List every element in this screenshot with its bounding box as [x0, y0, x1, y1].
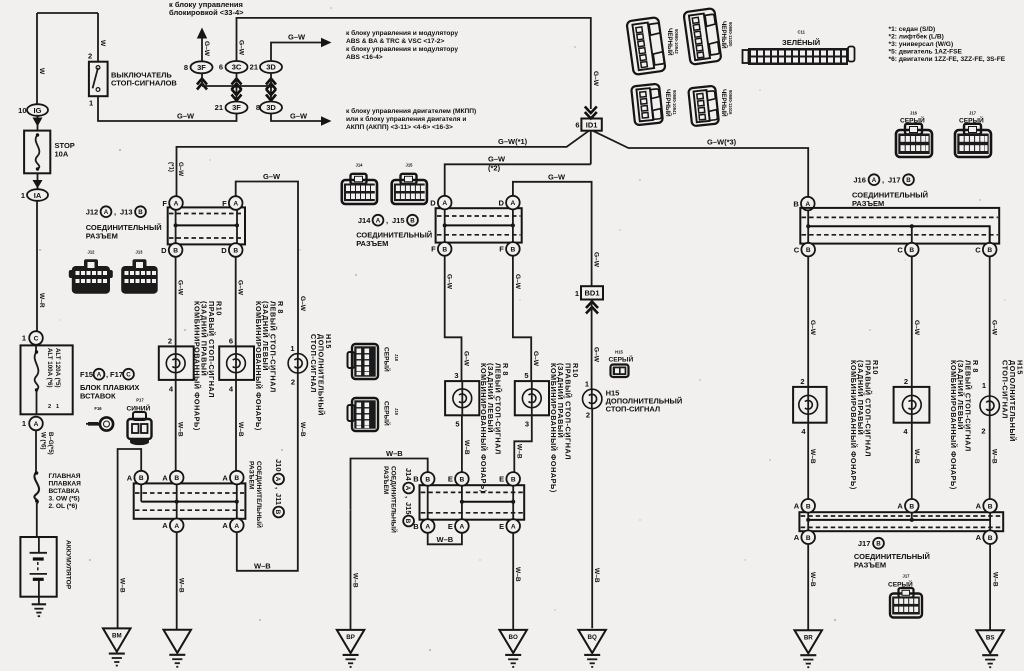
svg-text:2: 2: [904, 377, 908, 386]
lamp R8 left box: [219, 346, 254, 380]
svg-text:B: B: [909, 247, 914, 254]
fuse element in block: [35, 352, 39, 390]
ground hatch BP: [343, 654, 359, 656]
wire 3F to bus: [201, 73, 203, 86]
switch blade: [93, 68, 98, 89]
svg-text:3C: 3C: [232, 63, 242, 72]
wire in block to A: [36, 390, 38, 414]
svg-text:J16: J16: [910, 111, 918, 116]
svg-text:C: C: [897, 245, 903, 254]
svg-text:5: 5: [524, 371, 528, 380]
svg-text:W–B: W–B: [809, 572, 816, 587]
svg-text:G–W: G–W: [514, 274, 521, 290]
label ALT 120A / ALT 100A rotated: [46, 348, 61, 388]
lamp R10 right box: [793, 387, 827, 423]
terminal oval C: [29, 331, 43, 345]
svg-text:,: ,: [404, 496, 413, 498]
svg-text:J13: J13: [136, 250, 144, 255]
svg-text:*1: седан (S/D): *1: седан (S/D): [889, 26, 936, 33]
fuse element squiggle: [36, 135, 40, 169]
bus line J16: [808, 226, 990, 243]
svg-text:,: ,: [882, 176, 884, 185]
svg-text:F: F: [222, 199, 227, 208]
svg-text:СТОП-СИГНАЛ: СТОП-СИГНАЛ: [309, 334, 318, 393]
svg-text:F: F: [431, 245, 436, 254]
svg-text:B: B: [410, 218, 415, 225]
svg-text:F: F: [162, 199, 167, 208]
ground triangle BS: [976, 630, 1004, 653]
label G-W above BD1 rotated: [593, 252, 600, 268]
terminal F B 1 mid: [438, 242, 452, 256]
wire G-W(*2) branch: [445, 164, 591, 196]
svg-text:W–B: W–B: [178, 578, 185, 593]
svg-text:G–W: G–W: [263, 172, 281, 181]
svg-text:СОЕДИНИТЕЛЬНЫЙ: СОЕДИНИТЕЛЬНЫЙ: [390, 466, 399, 533]
svg-text:A: A: [794, 502, 800, 511]
wire W feed top-left horizontal: [37, 12, 98, 14]
rotated label J10 A J11 B: [273, 459, 284, 517]
battery box: [20, 537, 56, 597]
svg-text:G–W: G–W: [548, 172, 566, 181]
rotated label soedinitelny razem mid bottom: [382, 466, 399, 533]
svg-text:A: A: [511, 200, 516, 207]
svg-text:E: E: [448, 475, 453, 484]
svg-text:J18: J18: [394, 354, 399, 362]
svg-text:8: 8: [256, 103, 260, 112]
icon P17 blue connector: [127, 398, 152, 446]
svg-text:G–W: G–W: [593, 252, 600, 268]
svg-text:A: A: [34, 421, 39, 428]
wire lamp R8 left down: [235, 380, 237, 471]
svg-text:*2: лифтбек (L/B): *2: лифтбек (L/B): [889, 33, 944, 41]
svg-text:к блоку управления и модулятор: к блоку управления и модулятору: [346, 29, 458, 37]
connector icon black top1: [626, 17, 665, 75]
svg-text:J17: J17: [903, 574, 911, 579]
ground hatch BS: [982, 654, 998, 656]
svg-text:BM: BM: [112, 633, 122, 640]
svg-text:СТОП-СИГНАЛ: СТОП-СИГНАЛ: [1001, 360, 1010, 419]
svg-text:A: A: [234, 523, 239, 530]
svg-text:B: B: [793, 199, 799, 208]
svg-text:C: C: [794, 245, 800, 254]
chevron down into ID1: [585, 107, 597, 119]
terminal D B 2: [229, 243, 243, 257]
svg-text:B: B: [511, 247, 516, 254]
svg-text:J11: J11: [274, 493, 283, 505]
svg-text:СТОП-СИГНАЛ: СТОП-СИГНАЛ: [606, 405, 661, 414]
connector icon J14: [342, 163, 377, 205]
svg-text:КОМБИНИРОВАННЫЙ ФОНАРЬ): КОМБИНИРОВАННЫЙ ФОНАРЬ): [849, 360, 858, 490]
junction dot 3C bus: [235, 84, 239, 88]
svg-text:G–W: G–W: [532, 351, 539, 367]
svg-text:блокировкой <33-4>: блокировкой <33-4>: [169, 8, 244, 17]
terminal oval A below fuse block: [29, 417, 43, 431]
dashed lines J17 bottom: [801, 515, 1002, 517]
svg-text:СЕРЫЙ: СЕРЫЙ: [383, 347, 392, 372]
svg-text:J15: J15: [406, 163, 414, 168]
wire lamp R10 mid down jog: [514, 415, 532, 472]
internal verticals J12: [176, 210, 237, 243]
svg-text:90980-10941: 90980-10941: [672, 90, 677, 115]
svg-text:10A: 10A: [55, 150, 69, 159]
battery cell 2 long plate: [30, 573, 47, 575]
svg-text:B: B: [425, 477, 430, 484]
bus wire connecting 3F 3C 3D: [202, 85, 271, 87]
svg-text:РАЗЪЕМ: РАЗЪЕМ: [852, 199, 884, 208]
connector icon black row2 a: [631, 84, 663, 126]
svg-text:J19: J19: [394, 408, 399, 416]
svg-text:E: E: [499, 475, 504, 484]
wire BD1 to H15 mid: [591, 300, 593, 390]
svg-text:A: A: [794, 533, 800, 542]
svg-text:G–W: G–W: [463, 351, 470, 367]
svg-text:J17: J17: [858, 539, 871, 548]
rotated label R8 right group: [949, 360, 980, 490]
ground triangle left2: [164, 630, 192, 653]
svg-text:2: 2: [800, 377, 804, 386]
wire EA2 mid to BO ground: [512, 533, 514, 630]
svg-text:2: 2: [981, 427, 985, 436]
terminal A A bottom1: [170, 519, 184, 533]
svg-text:РАЗЪЕМ: РАЗЪЕМ: [382, 466, 389, 495]
svg-text:A: A: [222, 473, 228, 482]
terminal B B mid: [421, 472, 435, 486]
svg-text:2. OL (*6): 2. OL (*6): [49, 503, 78, 510]
svg-text:B: B: [806, 247, 811, 254]
svg-text:90980-11016: 90980-11016: [728, 90, 733, 115]
junction block J16 J17 rect: [800, 208, 999, 244]
svg-text:3D: 3D: [266, 63, 276, 72]
svg-text:W–B: W–B: [254, 562, 271, 571]
svg-text:,: ,: [274, 487, 283, 489]
arrow down into fuse: [33, 118, 43, 127]
icon gray connector J17 bottom: [888, 574, 922, 618]
svg-text:B: B: [234, 475, 239, 482]
terminal D A 2 mid: [506, 196, 520, 210]
ground triangle BM: [103, 628, 131, 651]
svg-text:СОЕДИНИТЕЛЬНЫЙ: СОЕДИНИТЕЛЬНЫЙ: [255, 461, 264, 528]
svg-text:W–B: W–B: [352, 573, 359, 588]
terminal oval IG: [27, 104, 48, 116]
label CHERNY top2: [720, 21, 728, 49]
wire DB2 down to lamp R8 left: [235, 257, 237, 347]
label W-R: [38, 293, 45, 308]
svg-text:G–W: G–W: [177, 112, 195, 121]
svg-text:ЗЕЛЁНЫЙ: ЗЕЛЁНЫЙ: [782, 38, 820, 47]
svg-text:W: W: [99, 40, 106, 47]
rotated label R8 mid group: [479, 363, 510, 493]
connector icon J13: [121, 250, 158, 294]
arrow down into IA: [33, 180, 43, 189]
lamp H15 mid circle: [591, 389, 593, 408]
wire G-W branch to DA2 and BD1: [513, 182, 592, 286]
svg-text:РАЗЪЕМ: РАЗЪЕМ: [86, 232, 118, 241]
dashed lines mid bottom: [421, 491, 523, 493]
internal verticals J16: [808, 211, 912, 243]
svg-text:6: 6: [575, 121, 579, 130]
svg-text:1: 1: [21, 191, 25, 200]
svg-text:J10: J10: [274, 459, 283, 472]
svg-text:G–W: G–W: [592, 71, 599, 87]
terminal F A 1: [169, 196, 183, 210]
svg-text:ЧЕРНЫЙ: ЧЕРНЫЙ: [664, 89, 672, 117]
wire CB1 down to lamp R10 right: [807, 257, 809, 387]
svg-text:ВСТАВКА: ВСТАВКА: [49, 488, 80, 495]
junction block J17 bottom rect: [799, 512, 1003, 531]
svg-text:*6: двигатели 1ZZ-FE, 3ZZ-FE,: *6: двигатели 1ZZ-FE, 3ZZ-FE, 3S-FE: [889, 56, 1006, 63]
wire W-R down to fuse block: [36, 201, 38, 332]
svg-text:B: B: [138, 209, 143, 216]
switch contact bottom: [96, 88, 100, 92]
wire C into block: [35, 345, 37, 352]
svg-text:ALT 120A (*5): ALT 120A (*5): [54, 348, 61, 388]
dashed lines J10: [135, 492, 244, 494]
wire DB1 down to lamp R10 left: [175, 257, 177, 347]
label CHERNY row2 a: [664, 89, 672, 117]
svg-text:3D: 3D: [266, 103, 276, 112]
svg-text:2: 2: [48, 404, 51, 410]
svg-text:РАЗЪЕМ: РАЗЪЕМ: [247, 461, 254, 490]
svg-text:10: 10: [18, 106, 26, 115]
bus line J12: [176, 224, 237, 226]
bus line J14: [445, 224, 513, 226]
svg-text:B: B: [460, 477, 465, 484]
svg-text:к блоку управления двигателем: к блоку управления двигателем (МКПП): [346, 107, 476, 115]
svg-text:J12: J12: [86, 208, 99, 217]
svg-text:A: A: [872, 177, 877, 184]
svg-text:A: A: [97, 372, 102, 379]
svg-text:СТОП-СИГНАЛОВ: СТОП-СИГНАЛОВ: [111, 79, 177, 88]
svg-text:W (*6): W (*6): [40, 432, 47, 450]
chevron up 3C: [232, 79, 242, 90]
chevron up 3F: [197, 79, 207, 90]
svg-text:2: 2: [168, 337, 172, 346]
svg-text:1: 1: [56, 404, 59, 410]
terminal oval 3C: [226, 61, 248, 73]
internal verticals J10: [141, 485, 237, 519]
svg-text:J16: J16: [853, 176, 866, 185]
label G-W 3C column: [238, 40, 245, 56]
wire ID1 middle down: [590, 131, 592, 165]
terminal A A bottom2: [230, 519, 244, 533]
internal verticals J14: [445, 210, 513, 242]
svg-text:2: 2: [88, 52, 92, 61]
ground hatch BO: [505, 654, 521, 656]
svg-text:E: E: [499, 522, 504, 531]
svg-text:1: 1: [982, 381, 986, 390]
internal verticals J17 bottom: [808, 513, 990, 531]
svg-text:G–W: G–W: [991, 320, 998, 336]
wire link to battery: [36, 503, 38, 537]
svg-text:G–W: G–W: [913, 320, 920, 336]
connector icon J15: [392, 163, 427, 205]
svg-text:D: D: [161, 246, 167, 255]
battery cell 2 short plate: [33, 578, 44, 581]
svg-text:B: B: [988, 535, 993, 542]
icon gray connector mid-left 2: [348, 398, 400, 431]
svg-text:1: 1: [585, 380, 589, 389]
fusible link block box: [21, 345, 73, 414]
svg-text:ALT 100A (*6): ALT 100A (*6): [46, 348, 53, 388]
wire FB2 to lamp R10 mid: [513, 256, 531, 381]
terminal D A 1 mid: [438, 196, 452, 210]
svg-text:J12: J12: [88, 250, 96, 255]
label G-W on ID1 drop: [592, 71, 599, 87]
svg-text:BP: BP: [346, 634, 355, 641]
dashed line J12 bottom: [169, 237, 244, 239]
wire H15 left down and across: [237, 373, 298, 571]
dashed lines J14: [437, 215, 520, 217]
lamp H15 left circle: [297, 354, 299, 373]
svg-text:A: A: [976, 502, 982, 511]
ground triangle BR: [795, 630, 823, 653]
svg-text:1: 1: [22, 419, 26, 428]
svg-text:B: B: [876, 541, 881, 548]
arrow to engine ECU: [321, 116, 332, 126]
ground hatch BR: [800, 654, 816, 656]
svg-text:A: A: [222, 521, 228, 530]
svg-text:G–W: G–W: [237, 280, 244, 296]
svg-text:B: B: [139, 475, 144, 482]
wire fuse to IA with arrow: [37, 173, 39, 189]
svg-text:АКПП (АКПП) <3-11> <4-6> <16-3: АКПП (АКПП) <3-11> <4-6> <16-3>: [346, 124, 453, 131]
svg-text:A: A: [174, 201, 179, 208]
svg-text:B: B: [404, 519, 411, 524]
dashed line J12 top: [169, 213, 244, 215]
lamp R8 right box: [894, 387, 930, 423]
svg-text:W–B: W–B: [515, 444, 522, 459]
wire AB1 up-left to BM ground: [118, 449, 142, 628]
wire 3F column up with arrow to lock ECU: [201, 34, 203, 62]
terminal F A 2: [229, 196, 243, 210]
wire ID1 left branch G-W(*1): [177, 131, 590, 197]
svg-text:E: E: [448, 522, 453, 531]
svg-text:W–R: W–R: [38, 293, 45, 308]
terminal B A mid: [421, 519, 435, 533]
svg-text:IA: IA: [34, 191, 42, 200]
terminal C B right1: [801, 243, 815, 257]
svg-text:A: A: [976, 533, 982, 542]
wire bus down to 3D row2: [270, 86, 272, 102]
svg-text:21: 21: [215, 103, 223, 112]
svg-text:P17: P17: [136, 398, 144, 403]
wire lamp R8 mid down: [461, 415, 463, 472]
svg-text:J15: J15: [392, 216, 405, 225]
arrow up to lock ECU: [197, 28, 207, 39]
lamp R8 mid box: [445, 381, 479, 415]
svg-text:ВСТАВОК: ВСТАВОК: [80, 392, 116, 401]
ground triangle BQ: [578, 630, 606, 653]
svg-text:АККУМУЛЯТОР: АККУМУЛЯТОР: [65, 540, 72, 590]
label G-W 3F column: [203, 41, 210, 57]
svg-text:1: 1: [575, 289, 579, 298]
label (*1) G-W rotated at left drop: [168, 162, 175, 172]
svg-text:W–B: W–B: [299, 422, 306, 437]
wire 3C to bus: [236, 73, 238, 86]
battery internal wire bottom: [38, 580, 40, 604]
wire bus down to 3F row2: [236, 86, 238, 102]
wire right lower1 to BR ground: [807, 544, 809, 630]
svg-text:5: 5: [455, 420, 459, 429]
svg-text:B: B: [987, 247, 992, 254]
svg-text:H15: H15: [615, 350, 623, 355]
svg-text:W–B: W–B: [463, 440, 470, 455]
svg-text:2: 2: [291, 378, 295, 387]
junction dot 3D bus: [269, 84, 273, 88]
svg-text:КОМБИНИРОВАННЫЙ ФОНАРЬ): КОМБИНИРОВАННЫЙ ФОНАРЬ): [254, 301, 263, 431]
wire ID1 right branch G-W(*3): [593, 131, 809, 197]
svg-text:W: W: [38, 68, 45, 75]
label G-W on H15 left drop: [299, 296, 306, 312]
svg-text:ЧЕРНЫЙ: ЧЕРНЫЙ: [720, 89, 728, 117]
svg-text:90980-11020: 90980-11020: [728, 22, 733, 47]
svg-text:G–W: G–W: [809, 320, 816, 336]
wire G-W switch to 3F connector: [98, 96, 237, 121]
rotated label R8 left group: [254, 301, 285, 431]
svg-text:B: B: [442, 247, 447, 254]
battery internal wire top: [38, 537, 40, 553]
terminal D B 1: [169, 243, 183, 257]
wire CB3 down to lamp H15 right: [989, 257, 991, 397]
svg-text:3: 3: [525, 420, 529, 429]
terminal E B mid2: [506, 472, 520, 486]
svg-text:ABS & BA & TRC & VSC <17-2>: ABS & BA & TRC & VSC <17-2>: [346, 38, 444, 45]
svg-text:КОМБИНИРОВАННЫЙ ФОНАРЬ): КОМБИНИРОВАННЫЙ ФОНАРЬ): [479, 363, 488, 493]
rotated label H15 right group: [1001, 360, 1024, 442]
svg-text:G–W: G–W: [593, 347, 600, 363]
svg-text:B: B: [806, 535, 811, 542]
svg-text:W–B: W–B: [386, 449, 403, 458]
svg-text:B: B: [274, 510, 281, 515]
svg-text:8: 8: [184, 63, 188, 72]
wire W down to IG: [36, 13, 38, 105]
connector icon black top2: [683, 8, 721, 65]
svg-text:*3: универсал (W/G): *3: универсал (W/G): [889, 41, 954, 48]
terminal oval 3F row1: [191, 61, 213, 73]
svg-text:W–B: W–B: [809, 449, 816, 464]
svg-text:,: ,: [106, 370, 108, 379]
svg-text:A: A: [233, 201, 238, 208]
svg-text:,: ,: [114, 208, 116, 217]
svg-text:B: B: [174, 475, 179, 482]
junction block J14 J15 rect: [436, 208, 522, 242]
connector icon J12: [69, 250, 113, 294]
svg-text:B: B: [413, 475, 419, 484]
switch contact top: [96, 66, 100, 70]
ground hatch BM: [109, 653, 125, 655]
lamp H15 right circle: [989, 396, 991, 415]
svg-text:G–W: G–W: [488, 155, 506, 164]
svg-text:W–B: W–B: [237, 422, 244, 437]
svg-text:C: C: [975, 245, 981, 254]
svg-text:C: C: [126, 372, 131, 379]
wire 3D to bus: [270, 73, 272, 86]
rotated label J14 A J15 B mid bottom: [403, 468, 414, 526]
switch S stop-signal switch box: [89, 62, 108, 96]
connector icon green bar: [743, 47, 855, 66]
svg-text:C11: C11: [798, 30, 806, 35]
terminal E A mid1: [455, 519, 469, 533]
svg-text:J15: J15: [404, 502, 413, 515]
icon gray connector J17 top: [955, 111, 991, 158]
svg-text:C: C: [34, 336, 39, 343]
wire IG to fuse with arrow: [37, 116, 39, 131]
svg-text:F15: F15: [80, 370, 93, 379]
label B-G(*5) W(*6) rotated: [40, 432, 55, 455]
label W on left wire: [38, 68, 45, 75]
label CHERNY row2 b: [720, 89, 728, 117]
svg-text:A: A: [404, 486, 411, 491]
